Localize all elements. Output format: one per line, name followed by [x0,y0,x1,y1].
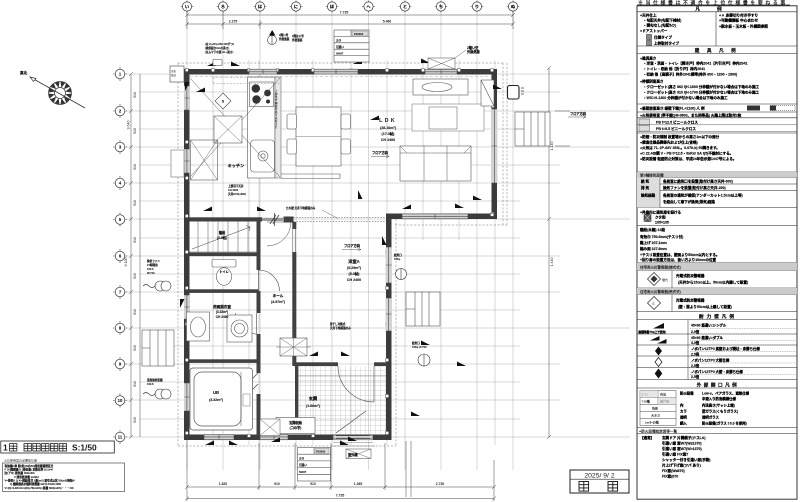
svg-text:2.0倍: 2.0倍 [691,329,700,334]
svg-text:F (V)開閉量 K (排気量) 定数比率 (0.1)=K: F (V)開閉量 K (排気量) 定数比率 (0.1)=K [5,468,54,472]
svg-text:仕様タイプ: 仕様タイプ [653,35,672,40]
svg-text:7.735: 7.735 [340,11,349,15]
svg-text:●火気使用室 (準不燃QM-0603、また同等品) 火難: ●火気使用室 (準不燃QM-0603、また同等品) 火難上限は取付2枚 [640,113,742,118]
svg-text:各居室の通気が確保(アンダーカット1.5cm以上等): 各居室の通気が確保(アンダーカット1.5cm以上等) [662,193,743,198]
svg-text:CH 2400: CH 2400 [216,315,229,319]
svg-text:カラ: カラ [299,457,305,461]
svg-text:CH 2400: CH 2400 [381,138,395,142]
svg-text:●火気は 71. 2P-63V 454L。0.079-b): ●火気は 71. 2P-63V 454L。0.079-b) 50隅きます。 [640,145,720,150]
svg-text:2025/ 9/ 2: 2025/ 9/ 2 [584,472,614,479]
svg-text:2.275: 2.275 [229,20,238,24]
svg-text:4.0倍: 4.0倍 [691,340,700,345]
svg-text:1.365: 1.365 [354,482,363,486]
svg-text:UB: UB [213,390,219,395]
svg-text:910: 910 [133,92,137,98]
svg-text:上部吊下天井: 上部吊下天井 [228,184,244,188]
svg-text:910: 910 [133,164,137,170]
svg-text:150.6: 150.6 [147,267,154,271]
svg-text:910: 910 [133,237,137,243]
svg-text:●防煙・防災規制 枚置場からの高さ1m以下の部分: ●防煙・防災規制 枚置場からの高さ1m以下の部分 [640,134,720,139]
svg-text:住宅用火災警報器(煙式式): 住宅用火災警報器(煙式式) [640,265,681,270]
svg-text:を経由して扉下が換気(排気)経路: を経由して扉下が換気(排気)経路 [663,199,715,204]
svg-text:半透入り防泡模様仕様: 半透入り防泡模様仕様 [702,396,737,401]
svg-text:・間勾なし(勾配ﾗｲﾝ): ・間勾なし(勾配ﾗｲﾝ) [643,23,677,28]
svg-text:踏み面 227.8mm: 踏み面 227.8mm [640,246,667,251]
svg-text:室外機: 室外機 [348,452,358,457]
svg-text:910: 910 [133,417,137,423]
svg-text:3.640: 3.640 [127,121,131,130]
svg-text:有効巾 750.0mm(テスリ付): 有効巾 750.0mm(テスリ付) [640,234,683,239]
svg-text:外換気扇: 外換気扇 [467,49,480,54]
svg-text:・トイレ・収納 他【折り戸】枠内2041: ・トイレ・収納 他【折り戸】枠内2041 [643,66,705,71]
svg-text:(耐震等級75以上で使用): (耐震等級75以上で使用) [638,330,666,334]
svg-text:真北: 真北 [20,70,28,75]
svg-text:内法: 内法 [660,392,666,397]
svg-text:防火設備: 防火設備 [680,391,694,396]
svg-text:910: 910 [133,200,137,206]
svg-text:ホール: ホール [273,293,284,298]
svg-text:シャッター付き引違い窓(手動): シャッター付き引違い窓(手動) [662,457,710,462]
svg-text:クタ和: クタ和 [655,215,666,220]
svg-text:・クローゼット(高さ 910 i)H-1700 分枠額が付か: ・クローゼット(高さ 910 i)H-1700 分枠額が付かない場合は下地のみ施… [643,90,760,95]
svg-text:り: り [275,125,277,129]
svg-text:天井H7N(+850): 天井H7N(+850) [228,192,246,196]
svg-text:V=排気K Q K=理論排ガ 1量(m2) 番号式以区 8: V=排気K Q K=理論排ガ 1量(m2) 番号式以区 80(m3)時効N [5,478,75,482]
svg-text:2階はい号: 2階はい号 [292,34,304,38]
svg-text:V 排気使用量 (m3/h): V 排気使用量 (m3/h) [14,475,39,479]
svg-text:(1.66m²): (1.66m²) [306,404,321,408]
svg-text:●建具高さ: ●建具高さ [640,56,657,61]
svg-text:蹴上げ 207.1mm: 蹴上げ 207.1mm [640,240,667,245]
svg-text:洗面脱衣室: 洗面脱衣室 [213,304,231,309]
svg-text:물干し可動式: 물干し可動式 [330,322,346,326]
svg-text:・WIC:H-1300 分枠額が付かない場合は下地のみ施工: ・WIC:H-1300 分枠額が付かない場合は下地のみ施工 [643,95,728,100]
svg-text:ち: ち [439,3,443,10]
svg-text:建具凡例: 建具凡例 [694,47,743,54]
svg-text:(はムマ下の渡 GL+高さ): (はムマ下の渡 GL+高さ) [205,50,233,54]
svg-text:(28.16m²): (28.16m²) [380,126,397,130]
svg-text:LDK: LDK [379,118,397,124]
svg-text:FIX窓(870 横すべり出し窓(オペレーター)(W≤350: FIX窓(870 横すべり出し窓(オペレーター)(W≤350/W>350) 縦す… [662,474,678,479]
svg-text:910: 910 [133,345,137,351]
svg-text:ノボパン12TP3 大壁・床勝ち仕様: ノボパン12TP3 大壁・床勝ち仕様 [691,369,743,374]
svg-text:910: 910 [133,309,137,315]
svg-text:(2.0帖): (2.0帖) [217,235,227,240]
svg-text:深夜: 深夜 [171,69,177,73]
svg-text:(壁・梁より50cm以上離して設置): (壁・梁より50cm以上離して設置) [678,304,732,309]
svg-text:PS2000: PS2000 [354,32,364,36]
svg-text:Q 燃焼器具の燃料消費量 kW (LPG15.10W: Q 燃焼器具の燃料消費量 kW (LPG15.10W [10,482,61,486]
svg-text:型ガラス(くもりガラス): 型ガラス(くもりガラス) [702,409,738,414]
svg-text:光電式防災警報器: 光電式防災警報器 [675,298,705,303]
svg-text:(3.32m²): (3.32m²) [216,310,228,314]
svg-text:火気使用室の必要換気量: 火気使用室の必要換気量 [4,458,37,463]
svg-text:・勾配天井(勾配下桟材): ・勾配天井(勾配下桟材) [643,18,682,23]
svg-text:24時間用: 24時間用 [147,263,158,267]
svg-text:内法高さ(サッシ上端): 内法高さ(サッシ上端) [702,403,735,408]
svg-text:?10種: ?10種 [642,399,651,404]
svg-text:・クローゼット(高さ 662 i)H-1600 分枠額が付か: ・クローゼット(高さ 662 i)H-1600 分枠額が付かない場合は下地のみ施… [643,84,760,89]
svg-text:●C 22.4の類 V・PB t=12.5・9xRxr SA: ●C 22.4の類 V・PB t=12.5・9xRxr SA t(5)不燃材にす… [640,151,733,156]
svg-text:(3.32m²): (3.32m²) [209,398,224,402]
svg-text:●脱水板・玉木板・外構図参照: ●脱水板・玉木板・外構図参照 [719,24,768,29]
svg-text:電温: 電温 [171,73,177,77]
svg-text:2.5倍: 2.5倍 [691,374,700,379]
svg-text:給 気: 給 気 [641,179,650,184]
svg-text:7.735: 7.735 [336,494,345,498]
svg-text:PB t=9.5 ビニールクロス: PB t=9.5 ビニールクロス [656,126,696,131]
svg-text:片上げ下げ窓(ツバ あり): 片上げ下げ窓(ツバ あり) [662,463,701,468]
svg-text:CH 2200: CH 2200 [228,188,239,192]
svg-text:910: 910 [133,128,137,134]
svg-text:+回り扉の設置方法は、扱い方より10mmの位置: +回り扉の設置方法は、扱い方より10mmの位置 [640,257,717,262]
svg-text:●防災設備 転居防止対策は、平成24年告示第1447号によ: ●防災設備 転居防止対策は、平成24年告示第1447号による。 [640,156,736,161]
svg-text:150φ: 150φ [394,257,400,261]
svg-text:9.100: 9.100 [124,258,128,267]
svg-text:【通常】: 【通常】 [640,435,654,440]
svg-text:カラ: カラ [680,409,687,414]
svg-text:1.440: 1.440 [550,258,554,267]
svg-text:フロア方向: フロア方向 [344,243,360,248]
svg-text:浴室換気乾燥: 浴室換気乾燥 [147,378,163,382]
svg-text:色彩: 色彩 [652,406,659,411]
svg-text:1: 1 [3,443,8,453]
svg-text:フロア方向: フロア方向 [372,150,388,155]
svg-text:外壁塗装: 外壁塗装 [279,37,290,41]
svg-text:5906T: 5906T [336,51,344,55]
svg-text:網入: 網入 [680,421,687,426]
svg-text:透明: 透明 [680,415,687,420]
svg-text:V=(0)=0.93×10.1(20).76(m2/h)<風: V=(0)=0.93×10.1(20).76(m2/h)<風量 600(m2/h… [5,486,74,490]
svg-text:2.5倍: 2.5倍 [691,363,700,368]
svg-text:引違い窓 FIX窓7: 引違い窓 FIX窓7 [662,452,688,457]
svg-text:●〃 床要切り付き手すり: ●〃 床要切り付き手すり [719,13,758,18]
svg-text:910: 910 [274,482,280,486]
svg-text:第3種換気設備: 第3種換気設備 [640,172,664,177]
svg-text:2階い号: 2階い号 [279,33,289,37]
svg-text:透明ガラス: 透明ガラス [702,415,719,420]
svg-text:引違い窓 窓W7(W>1370): 引違い窓 窓W7(W>1370) [662,446,702,451]
svg-text:●構造仕様品関係先および仕上(省略): ●構造仕様品関係先および仕上(省略) [640,140,698,145]
svg-text:各居室に給気口を設置(取付け高さ天井-600): 各居室に給気口を設置(取付け高さ天井-600) [662,179,733,184]
svg-text:耐力壁凡例: 耐力壁凡例 [699,313,737,320]
svg-text:換気経路: 換気経路 [641,193,656,198]
svg-text:910: 910 [133,381,137,387]
svg-text:(換気届か/GLの高さ): (換気届か/GLの高さ) [205,46,229,50]
svg-text:●枠額別室高さ: ●枠額別室高さ [640,79,664,84]
svg-text:1.140: 1.140 [550,142,554,151]
svg-text:天井下地補強のみ: 天井下地補強のみ [330,326,351,330]
svg-text:カラ: カラ [336,39,342,43]
svg-text:換気ファンを設置(取付け高さ天井-200): 換気ファンを設置(取付け高さ天井-200) [663,185,726,190]
svg-text:45×90 筋違い:シングル: 45×90 筋違い:シングル [691,323,727,328]
svg-text:洋室A: 洋室A [348,258,359,265]
svg-text:ノボパン12TP3 真壁および間柱・床勝ち仕様: ノボパン12TP3 真壁および間柱・床勝ち仕様 [691,346,760,351]
svg-text:比(アミ) 排気量 400m3/h: 比(アミ) 排気量 400m3/h [5,471,35,475]
svg-text:(9.29m²): (9.29m²) [347,266,362,270]
svg-text:45×90 筋違い:ダブル: 45×90 筋違い:ダブル [691,335,724,340]
svg-text:(天井から15cm以上、50cm以内離して設置): (天井から15cm以上、50cm以内離して設置) [678,280,748,285]
svg-text:2.5倍: 2.5倍 [691,351,700,356]
svg-text:(は 2)+2F(+550.150ずつ): (は 2)+2F(+550.150ずつ) [205,42,234,46]
svg-text:階段: 階段 [219,230,226,235]
svg-text:W:710: W:710 [147,271,155,275]
svg-text:引違い: 引違い [299,463,307,467]
svg-text:●垂壁居室高さ:垂壁下端(FL+2100) 人 例: ●垂壁居室高さ:垂壁下端(FL+2100) 人 例 [640,106,705,111]
svg-text:Low-e、ペアガラス、遮熱仕様: Low-e、ペアガラス、遮熱仕様 [702,391,750,396]
svg-text:1.820: 1.820 [219,482,228,486]
svg-text:階段(木製) 14段: 階段(木製) 14段 [640,227,665,232]
svg-text:玄関収納: 玄関収納 [289,420,302,425]
svg-text:・収納 他【高調子】枠外2041標準(枠外 800・120: ・収納 他【高調子】枠外2041標準(枠外 800・1200・1600) [643,72,737,77]
svg-text:CH 2400: CH 2400 [347,278,361,282]
svg-text:換気ファン: 換気ファン [147,259,160,263]
svg-text:煙式: 煙式 [662,277,668,282]
svg-text:FIX窓(W≤870): FIX窓(W≤870) [662,468,685,473]
svg-text:11: 11 [118,435,123,440]
svg-text:5906T: 5906T [299,470,307,474]
svg-text:引違い: 引違い [336,45,344,49]
svg-text:●ドアストッパー: ●ドアストッパー [640,28,668,33]
svg-text:大きさ: 大きさ [651,413,660,418]
svg-text:住宅用火災警報器(熱式式): 住宅用火災警報器(熱式式) [640,289,681,294]
svg-text:防火設備(ガラス t 6.3 を使用): 防火設備(ガラス t 6.3 を使用) [702,421,747,426]
svg-text:(17.0帖): (17.0帖) [382,131,396,136]
svg-text:(5.0帖): (5.0帖) [349,271,361,276]
svg-text:ノボパン12TP3 大壁仕様: ノボパン12TP3 大壁仕様 [691,358,730,363]
svg-text:●防火設備既定窓等一覧: ●防火設備既定窓等一覧 [639,428,678,433]
svg-text:ｼｬｯﾀｰの類: ｼｬｯﾀｰの類 [645,420,660,425]
svg-text:●天井仕上: ●天井仕上 [640,13,657,18]
svg-text:給気口: 給気口 [411,341,420,345]
svg-text:PS2000: PS2000 [316,450,326,454]
svg-text:外部開口凡例: 外部開口凡例 [697,381,740,388]
svg-text:+テスリ設置位置は、壁面より50mm以内とする。: +テスリ設置位置は、壁面より50mm以内とする。 [640,252,720,257]
svg-text:フロア方向: フロア方向 [570,111,586,116]
svg-text:上枠取付タイプ: 上枠取付タイプ [654,41,680,46]
svg-text:・洋室・洗面・トイレ【開き戸】枠内2041【片引き戸】枠内2: ・洋室・洗面・トイレ【開き戸】枠内2041【片引き戸】枠内2041 [643,61,747,66]
svg-text:有効量K率 弱(気)(Nの40)排気量需要区分: 有効量K率 弱(気)(Nの40)排気量需要区分 [4,464,54,468]
svg-text:たれ壁 天井下地補強のみ: たれ壁 天井下地補強のみ [286,206,316,210]
svg-text:(コの字): (コの字) [290,425,302,430]
svg-text:150φ H=700: 150φ H=700 [412,345,427,349]
svg-text:玄関ドア 片開親子(ドスLA): 玄関ドア 片開親子(ドスLA) [662,435,706,440]
svg-text:給気口: 給気口 [393,253,402,257]
svg-text:排 気: 排 気 [641,185,650,190]
svg-text:引違い窓 窓W7(W≤1370): 引違い窓 窓W7(W≤1370) [662,441,702,446]
svg-text:5.460: 5.460 [383,20,392,24]
svg-text:152.6: 152.6 [147,382,154,386]
svg-text:PB t=12.5 ビニールクロス: PB t=12.5 ビニールクロス [656,120,698,125]
svg-text:(4.97m²): (4.97m²) [271,300,286,304]
svg-text:外壁塗装: 外壁塗装 [292,38,303,42]
svg-text:トイレ: トイレ [219,270,229,274]
svg-text:2.730: 2.730 [436,482,445,486]
svg-text:凡例: 凡例 [695,6,738,13]
svg-text:玄関: 玄関 [309,395,317,402]
svg-text:光電式防災警報器: 光電式防災警報器 [675,273,705,278]
svg-text:910: 910 [133,273,137,279]
svg-text:910: 910 [310,482,316,486]
svg-text:10: 10 [118,398,123,403]
svg-text:105×105: 105×105 [655,221,669,225]
svg-text:S:1/50: S:1/50 [72,443,97,453]
svg-text:●可動棚棚板 中心合わせ: ●可動棚棚板 中心合わせ [719,18,759,23]
